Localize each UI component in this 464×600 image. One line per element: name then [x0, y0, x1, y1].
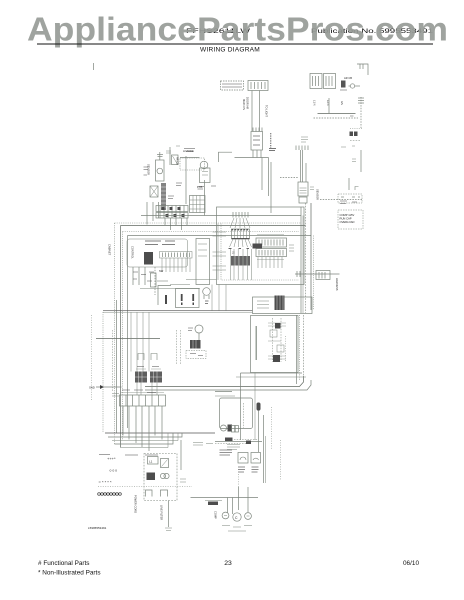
- mid bus h y310.7: [103, 310, 253, 312]
- defrost switch sym 2: [151, 354, 157, 361]
- thermistor leader vertical: [348, 178, 350, 190]
- bus top h y223 dotted: [115, 222, 302, 224]
- svg-text:OVERLOAD: OVERLOAD: [340, 220, 355, 224]
- fan motor sym 1: [238, 453, 248, 464]
- left stub x181: [180, 440, 182, 470]
- svg-text:SENSOR: SENSOR: [316, 189, 320, 200]
- ice duct box: [220, 398, 253, 429]
- dashed mode box: [180, 156, 205, 204]
- hatched block in dispenser box: [275, 296, 285, 311]
- bracket ticks: [359, 64, 361, 69]
- drops below ice box: [240, 373, 242, 440]
- svg-text:COMP: COMP: [214, 511, 218, 519]
- wire run y157: [235, 157, 269, 159]
- water valve pill: [257, 403, 261, 411]
- X-pattern block left: [150, 186, 158, 197]
- svg-text:17B: 17B: [197, 185, 202, 189]
- alarm buzzer: [203, 288, 211, 304]
- bus y441.5: [215, 441, 262, 443]
- svg-text:LINE FILTER: LINE FILTER: [160, 505, 164, 520]
- connector H1 with cells: [232, 229, 250, 239]
- dashed vertical in duct box: [243, 403, 245, 428]
- auger motor circle hatch: [221, 425, 233, 432]
- node tick top-left: [93, 63, 95, 70]
- dotted link fan1 down: [238, 474, 240, 487]
- switch sym 1: [146, 490, 153, 497]
- pin row R2 in X: [256, 249, 287, 257]
- svg-text:J2: J2: [232, 251, 235, 255]
- dotted wire x271.5: [271, 407, 273, 450]
- H1 fan-out wires: [230, 239, 252, 247]
- plug marks: [165, 528, 172, 531]
- bottom corner h y377: [236, 376, 306, 378]
- svg-text:o o o: o o o: [110, 469, 118, 473]
- small box below damper: [299, 197, 307, 203]
- left bus v x122.5 dotted: [122, 232, 124, 441]
- text block 3 rows: [220, 450, 233, 455]
- svg-text:AR CB: AR CB: [344, 76, 352, 80]
- svg-text:GN: GN: [340, 101, 344, 105]
- svg-text:AppliancePartsPros.com: AppliancePartsPros.com: [27, 11, 448, 48]
- U fan-out wires: [162, 258, 190, 272]
- thermostat hatched block: [190, 340, 201, 349]
- relay in power box: [148, 457, 159, 465]
- dashed link y177.5: [280, 177, 298, 179]
- bus top h y235.5: [128, 235, 312, 237]
- overload circle: [245, 513, 252, 520]
- ice maker internals: [256, 318, 287, 362]
- drop x255: [254, 373, 256, 441]
- svg-text:A MODE: A MODE: [183, 149, 194, 153]
- link bus y396: [215, 395, 235, 397]
- U label rows top: [145, 241, 175, 245]
- tick cluster at x360: [358, 98, 364, 103]
- U long tick row: [160, 252, 193, 259]
- svg-text:L2 N: L2 N: [326, 100, 330, 106]
- wires from module bottom: [252, 150, 254, 158]
- bottom nest h y440.5: [112, 433, 178, 441]
- switch sym 2: [161, 490, 168, 497]
- extra tick y116: [350, 115, 354, 117]
- wire drops below H1 fan: [231, 249, 252, 280]
- wire drops to defrost pair: [131, 312, 149, 371]
- compressor feed crosshair: [191, 487, 259, 510]
- wire x265.5: [265, 436, 267, 483]
- svg-text:L1 N: L1 N: [313, 100, 317, 106]
- tiny text rows left in X: [213, 232, 227, 270]
- wire run y112.5: [318, 113, 356, 115]
- U dark connector block: [144, 252, 153, 265]
- svg-text:+++*: +++*: [107, 456, 116, 461]
- corner mark lower: [355, 187, 359, 191]
- connector J1 door harness: [248, 81, 268, 91]
- svg-text:RUN CAP: RUN CAP: [340, 217, 352, 221]
- left bus v x120.5: [120, 226, 122, 448]
- right bus v x301: [300, 207, 302, 313]
- drop wires to bus: [147, 202, 187, 230]
- speck labels above defrost pair: [122, 367, 159, 393]
- dashed drop x112.5: [112, 330, 114, 392]
- svg-text:SW: SW: [159, 269, 164, 273]
- svg-text:= * * * *: = * * * *: [99, 480, 112, 485]
- tiny text block left low: [112, 394, 119, 397]
- dashed run y117.5: [314, 117, 359, 119]
- right bus lower v x299.5 dotted: [299, 315, 301, 380]
- lower bus h y390: [145, 380, 311, 390]
- right bus v x311: [310, 203, 312, 310]
- left bus v x116.5: [116, 300, 118, 433]
- wire x263.5: [263, 415, 265, 483]
- vertical tick strip: [161, 183, 166, 210]
- dashed verticals mid: [177, 330, 181, 365]
- defrost heater hatched pair: [135, 369, 162, 383]
- compressor motor circle: [233, 513, 241, 521]
- connector tick row top of X: [233, 212, 248, 218]
- right bus v x303: [302, 216, 304, 314]
- bus top h y231.5 dotted: [123, 231, 300, 233]
- small mark cluster x300: [301, 137, 308, 142]
- svg-text:* Non-Illustrated Parts: * Non-Illustrated Parts: [38, 570, 101, 577]
- small switch box: [172, 155, 179, 165]
- dashed leader y486: [98, 486, 192, 488]
- svg-text:GND: GND: [89, 386, 95, 390]
- run capacitor circle: [222, 512, 229, 519]
- damper module box: [298, 182, 308, 196]
- tiny marks right of rows: [289, 245, 294, 251]
- speck labels thermostat: [188, 328, 203, 356]
- dense label fan2: [252, 467, 259, 472]
- svg-text:L5995553491: L5995553491: [88, 526, 107, 530]
- h link y338.5 evap: [96, 338, 160, 340]
- wires below U left: [133, 267, 145, 285]
- tiny labels under compressor: [222, 526, 252, 532]
- svg-text:POWER CORD: POWER CORD: [134, 495, 138, 513]
- bottom label marks row: [99, 454, 158, 457]
- dashed stub y140.5: [350, 140, 360, 142]
- svg-text:CABINET: CABINET: [108, 244, 112, 256]
- lower bus h y386.5: [145, 376, 304, 387]
- tall box V: [196, 239, 210, 285]
- row drop wires: [123, 406, 162, 451]
- short links above W: [157, 280, 217, 285]
- vertical label columns under R2: [258, 257, 282, 268]
- wire drop x271: [270, 162, 272, 213]
- pin grid block: [190, 196, 206, 213]
- dispenser box upper: [253, 297, 313, 314]
- dashed leader y443.5: [215, 443, 246, 445]
- vertical lead x361: [360, 150, 362, 172]
- label box: fresh food door (dashed): [221, 81, 244, 90]
- dark label block under tick column: [269, 149, 276, 151]
- dashed leader y199.5: [320, 199, 362, 201]
- right bus lower v x296.5: [296, 315, 298, 384]
- wire run y157.5 left: [180, 157, 200, 159]
- tick cluster mid right: [352, 159, 356, 162]
- dashed drop x361: [360, 97, 362, 128]
- speck labels below control box: [133, 272, 154, 281]
- box W1 frame: [158, 286, 171, 306]
- dark mark on bus: [246, 441, 251, 445]
- connector block (dark): [350, 132, 358, 137]
- row tiny text y443: [193, 443, 213, 446]
- svg-text:MAIN CN: MAIN CN: [242, 99, 246, 110]
- feeds into connector row: [137, 383, 157, 396]
- dense label on bus: [225, 438, 233, 442]
- tiny marks top right pair: [341, 146, 355, 147]
- dashed option box: [338, 194, 362, 203]
- dotted left column x91.5: [91, 315, 93, 400]
- hatched connector H2: [231, 256, 250, 266]
- light/switch module: [251, 128, 263, 151]
- dotted stub y128.5: [350, 128, 362, 130]
- left bus v x103 dotted lower: [102, 312, 104, 433]
- svg-text:06/10: 06/10: [403, 560, 419, 567]
- dashed box under thermostat: [186, 351, 206, 359]
- svg-text:WIRING DIAGRAM: WIRING DIAGRAM: [200, 47, 260, 54]
- wire drop x262: [261, 158, 263, 191]
- evap connector row: [120, 393, 166, 407]
- speck cluster right of box X: [340, 201, 357, 204]
- connector dash row top of bus: [296, 146, 308, 151]
- wire pair down x300: [300, 150, 302, 182]
- compressor info box (dashed): [338, 210, 363, 229]
- coil sym: [160, 473, 169, 478]
- bus top h y225.5: [121, 225, 306, 227]
- ice maker box: [251, 316, 299, 373]
- main board box X inner left/bottom: [221, 224, 299, 281]
- box W2: [176, 289, 200, 308]
- relay K2 box: [324, 74, 336, 89]
- tiny text rows under bus: [227, 445, 240, 450]
- svg-text:# Functional Parts: # Functional Parts: [38, 560, 90, 567]
- svg-text:HARNESS: HARNESS: [335, 278, 339, 291]
- wire pair down from connector: [251, 91, 253, 132]
- h line y288.5: [140, 288, 200, 290]
- wire corner stub: [219, 152, 233, 162]
- svg-text:TO LIGHT: TO LIGHT: [265, 105, 269, 117]
- X inner v x218: [217, 224, 219, 281]
- wire x306: [305, 163, 307, 182]
- solenoid pair: [232, 426, 239, 433]
- terminal row circles: [98, 493, 122, 496]
- capacitor component P: [156, 152, 165, 181]
- component sym right: [161, 459, 169, 468]
- svg-text:L1: L1: [149, 460, 153, 464]
- dashed drop x155: [154, 267, 156, 295]
- link bus y391.5: [215, 391, 232, 393]
- right bus v x313.5 dotted: [313, 236, 315, 311]
- wire drop x204.5: [204, 180, 206, 216]
- fan-out wires below X tick row: [230, 218, 250, 228]
- drops below X to mid bus: [212, 285, 226, 311]
- dark tick column right of module: [270, 133, 272, 148]
- mid bus h y312.2: [103, 311, 253, 313]
- dotted drop x280.5: [280, 440, 282, 480]
- wire drop x268.5: [268, 158, 270, 197]
- valve wire down: [258, 411, 260, 453]
- feed drops: [228, 487, 249, 514]
- harness connector mid right: [295, 271, 340, 280]
- dark block in power box: [147, 473, 156, 481]
- svg-text:COMP 115V: COMP 115V: [340, 213, 355, 217]
- bus top h y215.5: [141, 215, 301, 217]
- left bus v x127.5: [127, 236, 129, 429]
- dashed y439.5: [234, 439, 258, 441]
- bottom corner h y373: [241, 372, 303, 374]
- speck labels mid-left cluster: [144, 149, 217, 199]
- relay K1 box: [310, 74, 322, 89]
- pin rows double: [156, 206, 188, 219]
- main board box X outer: [217, 207, 305, 285]
- defrost thermostat circle: [195, 325, 203, 340]
- tiny marks above cluster: [166, 146, 180, 153]
- bottom nest h y444: [115, 433, 174, 444]
- label above rows: [257, 235, 284, 260]
- dense label fan1: [238, 467, 245, 472]
- bottom nest h y447.5: [121, 433, 169, 448]
- right bus lower v x303.5 dashed: [303, 315, 305, 376]
- H1 wire end marks: [229, 248, 250, 250]
- defrost switch sym 1: [138, 354, 144, 361]
- svg-text:AR CB: AR CB: [176, 157, 179, 165]
- svg-text:C: C: [235, 516, 238, 520]
- second feed line: [205, 501, 222, 506]
- small rect below U: [151, 273, 157, 287]
- right bus v x305.5 dashed: [305, 203, 307, 313]
- corner bracket top right: [357, 64, 368, 75]
- svg-text:23: 23: [224, 560, 232, 567]
- cord wire down: [168, 501, 170, 528]
- header rule: [37, 43, 433, 45]
- wire stub x327.5: [328, 98, 330, 114]
- svg-text:DOOR HR: DOOR HR: [246, 97, 250, 109]
- left bus v x114.5 dotted: [114, 223, 116, 444]
- pin row R1 in X: [256, 238, 287, 247]
- control board outline U: [127, 239, 188, 267]
- small module cluster right: [340, 76, 360, 90]
- junction arrow left: [96, 385, 122, 389]
- power box dashed: [144, 454, 177, 501]
- wire stub x170: [169, 147, 171, 165]
- tiny marks x181 low: [180, 479, 186, 482]
- fan motor sym 2: [251, 453, 261, 464]
- bottom nest h y433 dark: [105, 432, 215, 434]
- dark label in X: [253, 244, 263, 249]
- svg-text:CONTROL: CONTROL: [131, 246, 135, 259]
- bottom nest h y437: [108, 433, 182, 437]
- motor M overload: [200, 161, 211, 182]
- label ticks right of damper: [310, 187, 320, 200]
